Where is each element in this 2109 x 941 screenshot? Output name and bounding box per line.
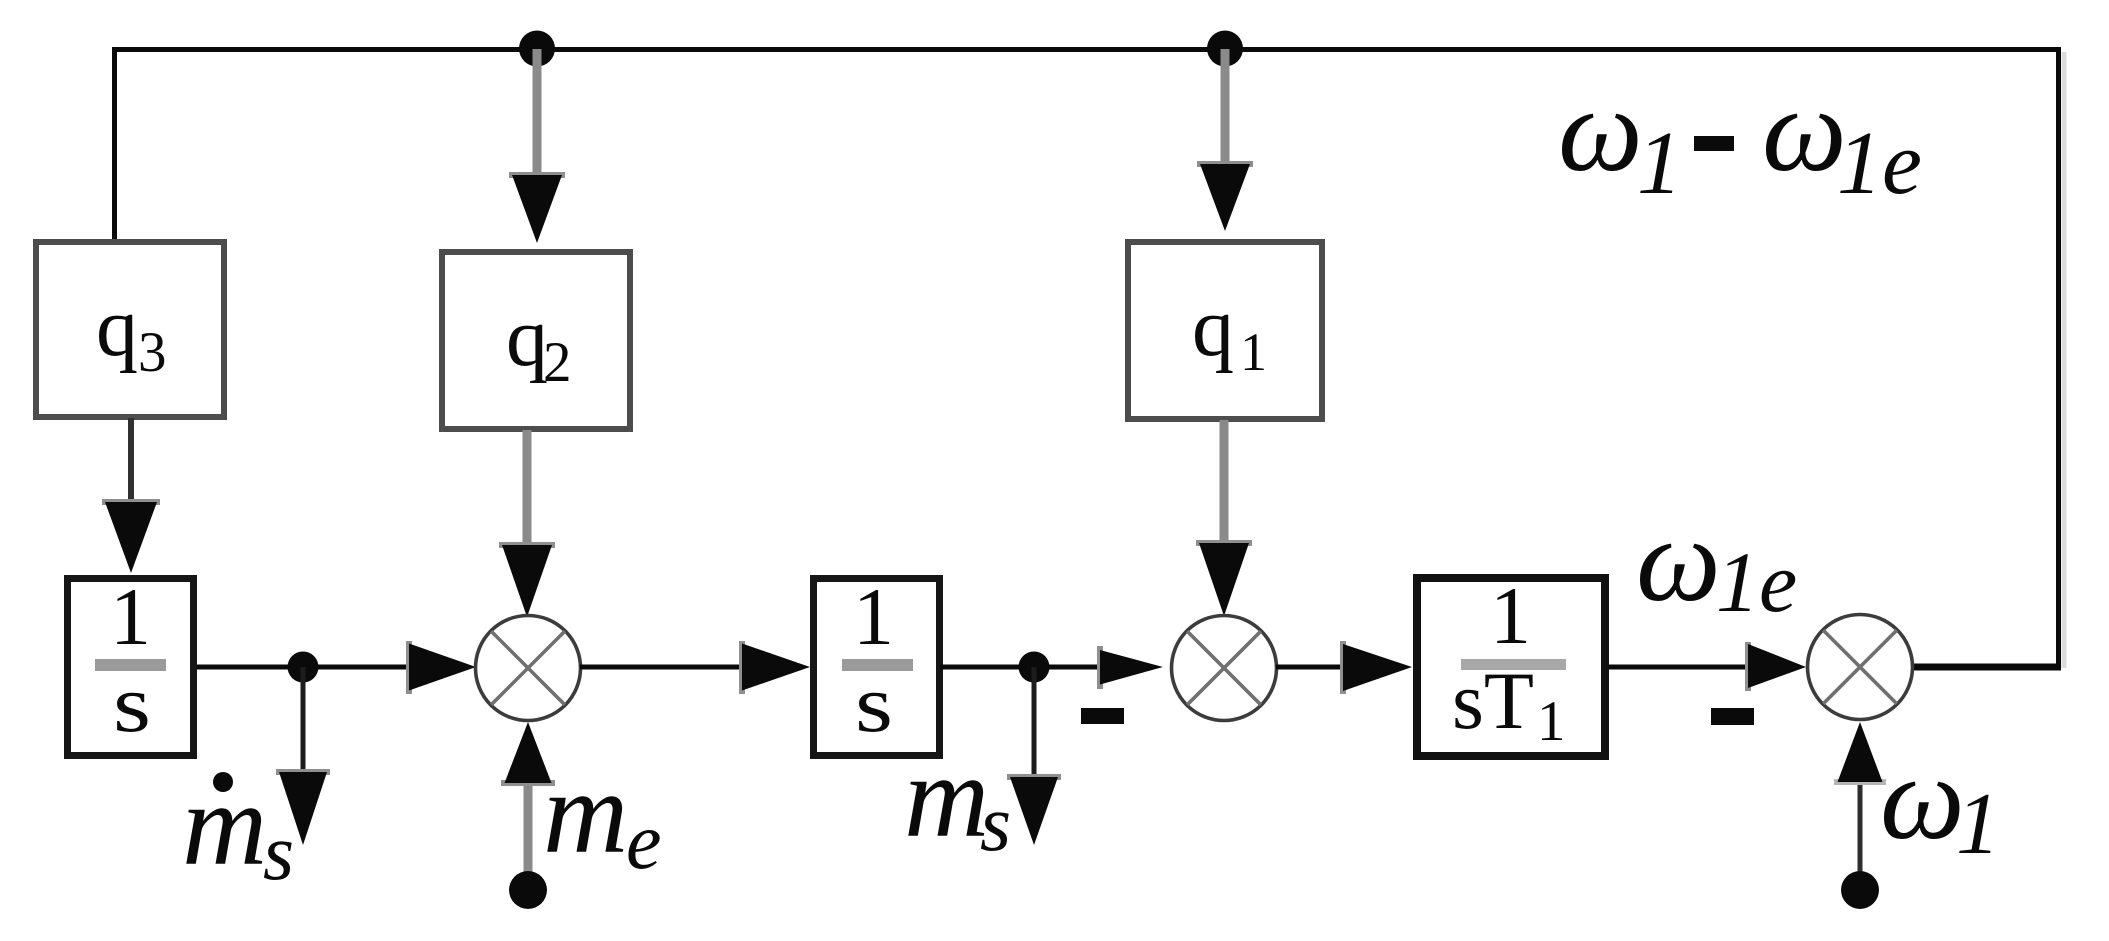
block q3 (36, 242, 224, 417)
label m-dot_s (213, 772, 233, 792)
svg-text:1: 1 (1240, 322, 1267, 382)
node: source dot below summing junction 1 (509, 871, 547, 909)
arrowhead into summing junction 2 (1097, 646, 1103, 689)
block integrator 1 (1/s) (68, 579, 194, 756)
wire: left vertical drop from top bus into q3 (112, 47, 117, 241)
minus sign at summing junction 2 (1081, 708, 1124, 724)
svg-text:1: 1 (1956, 776, 2000, 873)
wire: tap down from junction dot (m_s dot flow) (301, 667, 306, 775)
svg-text:s: s (113, 658, 151, 749)
svg-text:2: 2 (543, 331, 572, 394)
svg-text:m: m (543, 747, 628, 878)
svg-text:m: m (182, 759, 267, 890)
arrowhead up into summing junction 3 bottom (1834, 779, 1886, 785)
summing junction 2 (circle with X) (1172, 616, 1277, 721)
wire: light shadow right of riser (2062, 52, 2067, 668)
wire: drop from top-bus junction to q1 (1221, 49, 1230, 167)
wire: tap down from junction dot (m_s) (1032, 667, 1037, 780)
arrowhead into summing junction 2 top (1196, 540, 1252, 546)
wire: q2 output down to summing junction 1 (523, 430, 532, 550)
svg-text:ω: ω (1762, 63, 1847, 196)
arrowhead into integrator 1 top (102, 499, 160, 505)
svg-text:1: 1 (1637, 114, 1682, 213)
block q1 (1128, 242, 1322, 419)
svg-text:e: e (626, 798, 662, 886)
wire: drop from top-bus junction to q2 (533, 49, 542, 178)
arrowhead into summing junction 1 top (499, 542, 555, 548)
svg-text:3: 3 (138, 321, 167, 384)
svg-text:q: q (506, 291, 548, 384)
node: junction dot after integrator 1 (288, 652, 319, 683)
svg-text:q: q (96, 281, 138, 374)
arrowhead into block 1/sT1 (1340, 641, 1346, 694)
svg-text:1e: 1e (1716, 534, 1797, 630)
arrowhead up into summing junction 1 bottom (501, 780, 555, 786)
node: junction dot on top bus above q2 (519, 31, 555, 67)
wire: omega_1 input up into summing junction 3 (1858, 785, 1863, 890)
summing junction 3 (circle with X) (1808, 615, 1913, 720)
svg-text:q: q (1192, 281, 1234, 374)
arrowhead into integrator 2 (739, 641, 745, 694)
block integrator 2 (1/s) (814, 579, 940, 756)
svg-text:s: s (980, 780, 1011, 868)
svg-text:ω: ω (1558, 63, 1643, 196)
svg-text:ω: ω (1880, 731, 1965, 864)
node: source dot below summing junction 3 (1841, 871, 1879, 909)
svg-text:1e: 1e (1837, 114, 1922, 213)
wire: summing junction 2 output to block 1/sT1 (1276, 665, 1346, 670)
arrowhead into summing junction 1 (406, 641, 412, 694)
svg-text:1: 1 (1537, 690, 1566, 753)
arrowhead into q2 top (509, 172, 565, 178)
arrowhead down below junction dot (276, 769, 330, 775)
block 1/sT1 (1417, 578, 1605, 756)
node: junction dot on top bus above q1 (1207, 31, 1243, 67)
wire: summing junction 1 output to integrator 2 (580, 665, 745, 670)
svg-text:m: m (904, 731, 989, 862)
wire: integrator 2 output to summing junction 2 (940, 665, 1102, 670)
wire: top feedback bus horizontal (112, 47, 2061, 52)
wire: q3 output down to integrator 1 (128, 418, 134, 508)
block q2 (442, 252, 630, 429)
arrowhead down below junction dot (1007, 774, 1061, 780)
svg-text:s: s (855, 658, 893, 749)
node: junction dot after integrator 2 (1019, 652, 1050, 683)
wire: block 1/sT1 output to summing junction 3 (1609, 665, 1750, 670)
svg-text:1: 1 (853, 571, 894, 662)
arrowhead into summing junction 3 (1745, 642, 1751, 691)
minus sign at summing junction 3 (1711, 708, 1754, 725)
svg-text:1: 1 (1490, 570, 1531, 661)
summing junction 1 (circle with X) (476, 616, 581, 721)
svg-text:ω: ω (1636, 493, 1721, 626)
arrowhead into q1 top (1197, 161, 1253, 167)
wire: right vertical feedback riser (2056, 47, 2061, 668)
svg-text:1: 1 (110, 571, 151, 662)
svg-text:s: s (263, 809, 294, 897)
wire: q1 output down to summing junction 2 (1220, 420, 1229, 548)
wire: m_e input up into summing junction 1 (524, 785, 533, 890)
svg-text:sT: sT (1452, 655, 1534, 746)
wire: summing junction 3 output to riser (1910, 664, 2061, 671)
wire: integrator 1 output to summing junction 1 (197, 665, 412, 670)
